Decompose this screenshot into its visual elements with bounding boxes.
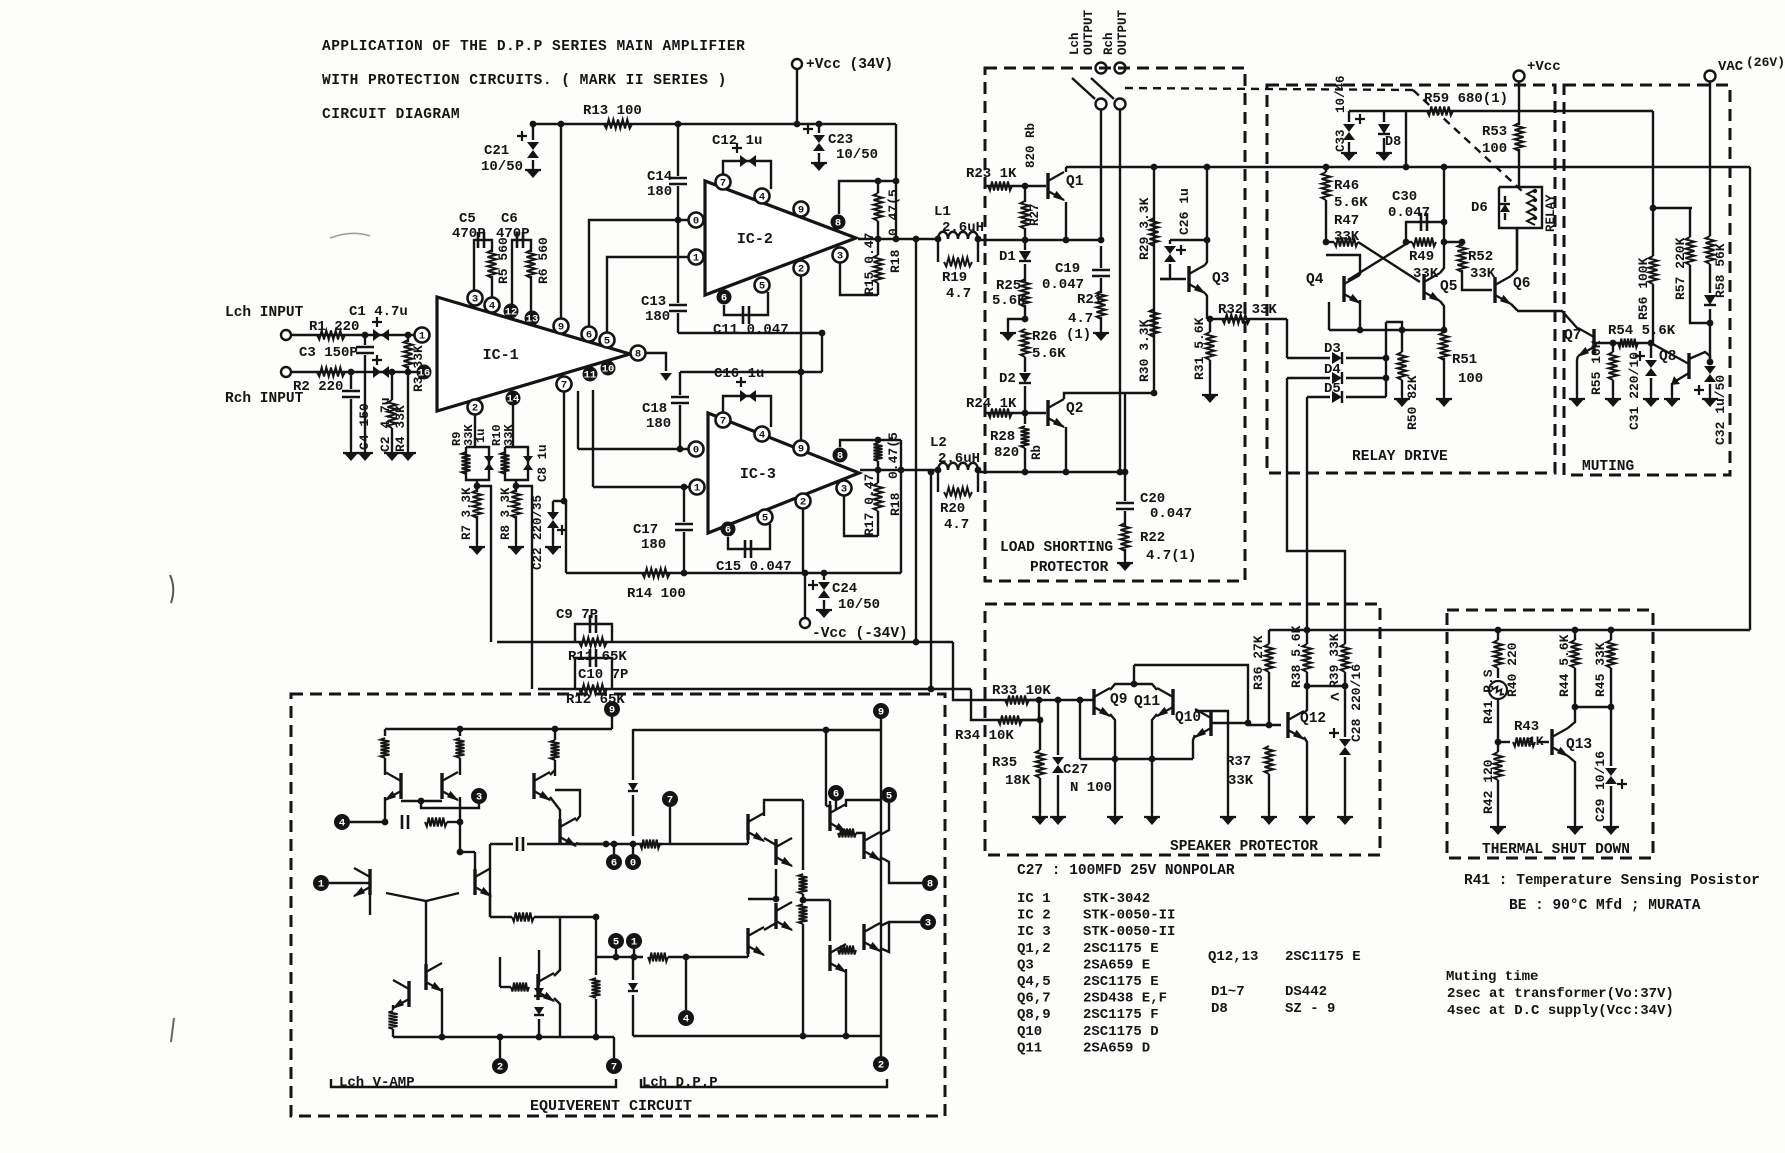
resistor R6 [527, 250, 536, 278]
right column x826 [825, 730, 827, 806]
box EQUIVERENT CIRCUIT [291, 694, 945, 1116]
resistor R18(5) upper [840, 440, 901, 447]
svg-text:R39 33K: R39 33K [1327, 633, 1342, 688]
svg-text:2SD438 E,F: 2SD438 E,F [1083, 991, 1167, 1007]
svg-text:5: 5 [613, 937, 619, 949]
svg-text:(26V): (26V) [1746, 55, 1785, 70]
wire R18 box bottom link [900, 440, 902, 470]
wire IC-2 output [858, 238, 938, 240]
wire main rail y167 [1154, 166, 1750, 168]
RC network R9/C7 [466, 447, 489, 480]
wire pin2 down IC-2 [800, 276, 802, 440]
capacitor C11 [724, 292, 768, 315]
wire pin1 to T3 [329, 882, 370, 884]
transistor equiv T14 [774, 903, 777, 929]
transistor equiv T10 [746, 814, 749, 840]
capacitor C30 [1406, 222, 1444, 242]
pin 4 IC-3 [755, 427, 770, 442]
resistor R24 [988, 409, 1012, 418]
wire D4 down to R39 [1287, 378, 1345, 604]
svg-text:R38 5.6K: R38 5.6K [1289, 625, 1304, 688]
svg-text:R47: R47 [1334, 213, 1359, 229]
resistor R52 [1461, 242, 1463, 246]
wire Q9 emitter [1110, 714, 1115, 759]
svg-text:R56 100K: R56 100K [1636, 257, 1651, 320]
wire Q1 collector up [1065, 167, 1067, 172]
diode D3 [1287, 357, 1330, 359]
inductor L2 [938, 463, 978, 470]
transistor Q9 [1092, 689, 1095, 715]
svg-text:BE : 90°C Mfd ; MURATA: BE : 90°C Mfd ; MURATA [1509, 898, 1701, 914]
wire bus drop1 [1114, 759, 1116, 814]
svg-text:4sec at D.C supply(Vcc:34V): 4sec at D.C supply(Vcc:34V) [1447, 1003, 1674, 1019]
pin 3 IC-2 [833, 248, 848, 263]
switch arm Lch [1072, 78, 1095, 99]
svg-text:2: 2 [800, 497, 806, 509]
wire R32 to D3 [1286, 319, 1288, 358]
svg-text:R2 220: R2 220 [293, 379, 343, 395]
pin 5 equiv [608, 933, 624, 949]
pin 4 equiv [334, 814, 350, 830]
svg-text:C33: C33 [1334, 129, 1348, 152]
capacitor C21 [532, 124, 534, 140]
wire right rail links [846, 800, 881, 807]
pin 1 equiv [313, 875, 329, 891]
svg-text:7: 7 [561, 380, 567, 392]
op-amp IC-2 [705, 181, 856, 295]
svg-text:4.7: 4.7 [944, 517, 969, 533]
pin 14 IC-1 [506, 391, 521, 406]
pin 1 IC-2 [689, 250, 704, 265]
svg-text:Rch INPUT: Rch INPUT [225, 391, 304, 407]
resistor R57 [1689, 208, 1691, 237]
wire T10 base up [747, 814, 749, 844]
svg-text:33K: 33K [1470, 266, 1496, 282]
diode equiv D-a [632, 729, 634, 780]
wire pin7 to right half [670, 843, 748, 845]
svg-text:C11 0.047: C11 0.047 [713, 322, 789, 338]
wire Q5 collector [1440, 242, 1444, 273]
Rch output terminal upper [1115, 63, 1126, 74]
wire Q9/Q11 collectors [1110, 684, 1157, 690]
pin 6 IC-1 [582, 327, 597, 342]
wire riser x532b [516, 486, 532, 689]
svg-text:C30: C30 [1392, 189, 1417, 205]
capacitor C15 [728, 524, 770, 549]
resistor equiv R-e [389, 1011, 398, 1029]
diode D5 [1307, 396, 1330, 398]
pin 8 equiv [922, 875, 938, 891]
resistor R40 [1497, 630, 1499, 640]
transistor equiv T2 [440, 773, 443, 799]
svg-text:R31 5.6K: R31 5.6K [1192, 317, 1207, 380]
wire to R33 [953, 642, 1039, 700]
wire pin2 IC-3 down [802, 509, 804, 573]
svg-text:3: 3 [472, 294, 478, 306]
wire T7 c/e [550, 770, 555, 775]
wire Q10 emitter [1193, 735, 1195, 759]
op-amp IC-1 [437, 297, 630, 411]
box MUTING [1564, 85, 1730, 475]
transistor equiv T5 [424, 964, 427, 990]
wire R32 line [1207, 318, 1287, 320]
wire pin14 down [512, 405, 514, 447]
resistor R28 [1024, 413, 1026, 424]
pin 0 IC-2 [689, 213, 704, 228]
transistor Q3 [1187, 266, 1190, 292]
pin 3 equiv [471, 788, 487, 804]
svg-text:Q11: Q11 [1017, 1040, 1042, 1056]
resistor R51 [1440, 332, 1449, 360]
op-amp IC-3 [708, 413, 859, 533]
svg-text:5: 5 [759, 281, 765, 293]
pin 5 IC-3 [758, 510, 773, 525]
svg-text:18K: 18K [1005, 773, 1031, 789]
capacitor C4 [350, 372, 352, 389]
resistor equiv R-g [512, 913, 534, 922]
pin 5b equiv [881, 787, 897, 803]
wire R10 to R8 [515, 480, 517, 492]
svg-text:APPLICATION OF THE D.P.P S: APPLICATION OF THE D.P.P SERIES MAIN AMP… [322, 39, 745, 55]
svg-text:R30 3.3K: R30 3.3K [1137, 319, 1152, 382]
resistor R11 [579, 638, 607, 647]
wire Vcc to R53 [1518, 82, 1520, 125]
wire T9 collector [554, 917, 560, 976]
svg-text:7: 7 [611, 1062, 617, 1074]
pin 4 IC-2 [755, 189, 770, 204]
wire pin0 stem [632, 844, 634, 854]
svg-text:5: 5 [762, 513, 768, 525]
pin 7 IC-2 [716, 175, 731, 190]
svg-text:Q7: Q7 [1564, 328, 1581, 344]
pin 9 equiv right [873, 703, 889, 719]
wire feedback IC-2 out [915, 239, 917, 642]
wire Q6 collector [1511, 228, 1517, 276]
svg-text:5.6K: 5.6K [1032, 346, 1066, 362]
resistor R3 [407, 335, 409, 342]
svg-text:C16 1u: C16 1u [714, 366, 764, 382]
svg-text:2SA659 D: 2SA659 D [1083, 1040, 1150, 1056]
resistor equiv R-i [648, 953, 668, 962]
svg-text:R18: R18 [888, 249, 903, 273]
resistor R30 [1150, 309, 1159, 337]
svg-text:MUTING: MUTING [1582, 459, 1634, 475]
wire T1/T2 emitters [384, 772, 386, 775]
pin 0 equiv [625, 854, 641, 870]
wire IC-3 output [860, 469, 938, 471]
pin 4 IC-1 [485, 298, 500, 313]
svg-text:VAC: VAC [1718, 59, 1744, 75]
wire equiv right top rail [633, 729, 881, 731]
pin 5 IC-1 [600, 333, 615, 348]
svg-text:R22: R22 [1140, 530, 1165, 546]
zener D8 [1383, 111, 1385, 122]
svg-text:14: 14 [507, 394, 520, 406]
svg-text:4.7: 4.7 [1068, 311, 1093, 327]
wire T15 base [747, 954, 749, 957]
transistor equiv T4 [473, 869, 476, 895]
wire Q3 emitter [1205, 293, 1207, 319]
svg-text:D5: D5 [1324, 381, 1341, 397]
resistor R38 [1306, 630, 1308, 644]
resistor R37 [1265, 746, 1274, 774]
svg-text:0.047: 0.047 [1042, 277, 1084, 293]
wire -Vcc terminal [804, 573, 806, 618]
capacitor C31 [1650, 343, 1652, 358]
svg-text:SPEAKER PROTECTOR: SPEAKER PROTECTOR [1170, 839, 1318, 855]
svg-text:180: 180 [647, 184, 672, 200]
wire +Vcc right terminal [1514, 71, 1525, 82]
svg-text:C5: C5 [459, 211, 476, 227]
wire T13b emitter [880, 922, 920, 952]
transistor equiv T6 [407, 981, 410, 1007]
wire y167 rail to C26 [1206, 167, 1208, 240]
svg-text:Q6,7: Q6,7 [1017, 991, 1051, 1007]
wire C22 to R14 line [553, 501, 566, 573]
wire R38-R39 bar [1307, 685, 1345, 687]
wire bus drop2 [1151, 759, 1153, 814]
transistor equiv T12b [862, 833, 865, 859]
wire T10-T11 [764, 838, 776, 845]
svg-text:Q4,5: Q4,5 [1017, 974, 1051, 990]
svg-text:2.6uH: 2.6uH [942, 220, 984, 236]
wire pin9R stem [880, 719, 882, 730]
transistor Q5 [1422, 274, 1425, 300]
mid resistors equiv [802, 800, 804, 870]
wire relay to Q6 [1516, 228, 1518, 265]
svg-text:R28: R28 [990, 429, 1015, 445]
svg-text:IC-2: IC-2 [737, 231, 773, 248]
svg-text:RELAY: RELAY [1544, 194, 1558, 232]
svg-text:0.047: 0.047 [1150, 506, 1192, 522]
wire Q11 emitter [1152, 714, 1157, 759]
svg-text:33K: 33K [1413, 266, 1439, 282]
transistor Q13 [1550, 729, 1553, 755]
svg-text:Lch: Lch [1068, 32, 1082, 55]
svg-text:Q4: Q4 [1306, 272, 1324, 288]
svg-text:C9 7P: C9 7P [556, 607, 598, 623]
wire Vcc rail down right [895, 124, 897, 239]
svg-text:+Vcc: +Vcc [1527, 59, 1561, 75]
inductor L1 [938, 232, 978, 239]
svg-text:2: 2 [878, 1060, 884, 1072]
svg-text:Q2: Q2 [1066, 401, 1083, 417]
svg-text:C32 1u/50: C32 1u/50 [1713, 375, 1728, 445]
svg-text:R54 5.6K: R54 5.6K [1608, 323, 1676, 339]
svg-text:Lch V-AMP: Lch V-AMP [339, 1075, 415, 1091]
pin 8 IC-2 [831, 215, 846, 230]
svg-text:CIRCUIT DIAGRAM: CIRCUIT DIAGRAM [322, 107, 460, 123]
svg-text:R27: R27 [1028, 203, 1042, 226]
wire C33/D8 bar [1349, 110, 1406, 112]
wire T15-T14 [764, 923, 776, 930]
capacitor C29 [1610, 707, 1612, 766]
wire Q8 emitter gnd [1671, 383, 1673, 396]
pin 9 IC-2 [794, 202, 809, 217]
svg-text:2SC1175 F: 2SC1175 F [1083, 1007, 1159, 1023]
svg-text:D4: D4 [1324, 362, 1341, 378]
capacitor C23 [818, 124, 820, 133]
wire T12 base vert [775, 869, 777, 899]
svg-text:IC-3: IC-3 [740, 466, 776, 483]
transistor equiv T13a [828, 945, 831, 971]
wire R44-R45 bar [1575, 706, 1611, 708]
svg-text:Q6: Q6 [1513, 276, 1530, 292]
svg-text:R25: R25 [996, 278, 1021, 294]
transistor equiv T3 [368, 869, 371, 895]
svg-text:C29: C29 [1593, 798, 1608, 822]
pin 6 IC-3 [721, 522, 736, 537]
wire -Vcc rail [566, 572, 901, 574]
wire pin2b stem [880, 1036, 882, 1056]
wire equiv bottom rail right [633, 1035, 881, 1037]
svg-text:100: 100 [1482, 141, 1507, 157]
Lch output terminal upper [1096, 63, 1107, 74]
wire Q10 base [1211, 722, 1248, 724]
resistor R13 [604, 120, 632, 129]
wire C3 lower stub [364, 372, 366, 450]
pin 8 IC-3 [833, 448, 848, 463]
wire base tie to pin3 [421, 801, 479, 808]
svg-text:R5 560: R5 560 [496, 237, 511, 284]
pin 10 IC-1 [601, 361, 616, 376]
capacitor C26 [1170, 239, 1207, 241]
svg-text:R26: R26 [1032, 329, 1057, 345]
box LOAD SHORTING PROTECTOR [985, 68, 1245, 581]
svg-text:R34 10K: R34 10K [955, 728, 1014, 744]
wire pin0 left riser [577, 391, 579, 449]
svg-text:3: 3 [841, 484, 847, 496]
wire pin1 left riser [592, 390, 594, 487]
svg-text:2: 2 [497, 1062, 503, 1074]
svg-text:R1 220: R1 220 [309, 319, 359, 335]
resistor R46 [1325, 167, 1327, 172]
switch arm Rch [1091, 78, 1114, 99]
svg-text:C17: C17 [633, 522, 658, 538]
svg-text:R41 P.S: R41 P.S [1481, 669, 1496, 724]
capacitor C1 [373, 329, 389, 341]
pin 3 IC-1 [468, 291, 483, 306]
resistor R56 [1652, 208, 1654, 256]
svg-text:16: 16 [418, 368, 431, 380]
svg-text:C26 1u: C26 1u [1177, 188, 1192, 235]
svg-text:R53: R53 [1482, 124, 1507, 140]
capacitor C6 loop [512, 240, 531, 304]
resistor R26 [1021, 329, 1030, 357]
svg-text:0.47(5: 0.47(5 [886, 189, 901, 236]
pin 11 IC-1 [583, 367, 598, 382]
svg-text:4.7(1): 4.7(1) [1146, 548, 1196, 564]
svg-text:N 100: N 100 [1070, 780, 1112, 796]
diode equiv D-b [632, 957, 634, 980]
svg-text:D3: D3 [1324, 341, 1341, 357]
wire Q4 emitter drop [1328, 302, 1330, 330]
svg-text:7: 7 [720, 178, 726, 190]
svg-text:R36 27K: R36 27K [1251, 635, 1266, 690]
resistor R1 [317, 331, 345, 340]
svg-text:3: 3 [476, 792, 482, 804]
svg-text:R35: R35 [992, 755, 1017, 771]
transistor Q4 [1342, 276, 1345, 302]
capacitor C13 [669, 305, 687, 311]
wire Q3 base [1160, 278, 1186, 280]
svg-text:0: 0 [693, 216, 699, 228]
svg-text:LOAD SHORTING: LOAD SHORTING [1000, 540, 1113, 556]
wire Q5 base cross [1348, 244, 1406, 280]
svg-text:WITH PROTECTION CIRCUITS. (: WITH PROTECTION CIRCUITS. ( MARK II SERI… [322, 73, 727, 89]
svg-text:IC-1: IC-1 [483, 347, 519, 364]
transistor equiv T9 [536, 974, 539, 1000]
svg-text:9: 9 [878, 707, 884, 719]
resistor R15 [877, 239, 879, 255]
resistor R31 [1209, 319, 1211, 332]
capacitor C22 [552, 501, 554, 512]
wire T8 links [555, 790, 580, 821]
pin 0 IC-3 [689, 442, 704, 457]
wire Q13 collector [1568, 707, 1575, 728]
wire T1-T2 base tie [401, 800, 442, 802]
resistor R44 [1574, 630, 1576, 640]
svg-text:0: 0 [630, 858, 636, 870]
pin 5 IC-2 [755, 278, 770, 293]
transistor Q12 [1286, 712, 1289, 738]
wire T4 collector [489, 893, 491, 917]
capacitor C20 [1116, 503, 1134, 509]
svg-text:2.6uH: 2.6uH [938, 451, 980, 467]
svg-text:OUTPUT: OUTPUT [1116, 9, 1130, 55]
wire Q2 emitter down [1065, 427, 1067, 472]
svg-text:180: 180 [645, 309, 670, 325]
svg-text:5: 5 [886, 791, 892, 803]
wire pin0 line to C13 [677, 220, 679, 303]
svg-text:100: 100 [1458, 371, 1483, 387]
capacitor C5 loop [474, 240, 492, 291]
transistor Q2 [1046, 400, 1049, 426]
svg-text:R46: R46 [1334, 178, 1359, 194]
wire feedback IC-3 out [930, 472, 932, 689]
RC network R10/C8 [505, 447, 528, 480]
resistor R33 [1005, 696, 1029, 705]
wire pin2 down [474, 414, 476, 447]
wire pin5/1 node [596, 956, 643, 958]
svg-text:7: 7 [667, 795, 673, 807]
svg-text:33K: 33K [502, 424, 516, 446]
resistor R54 [1618, 339, 1638, 348]
svg-text:R59 680(1): R59 680(1) [1424, 91, 1508, 107]
svg-text:PROTECTOR: PROTECTOR [1030, 560, 1109, 576]
resistor R21 [1097, 291, 1106, 319]
wire main rail y630 [1269, 629, 1750, 631]
wire rail right end down [1749, 167, 1751, 630]
VAC terminal [1705, 71, 1716, 82]
svg-text:R58 56K: R58 56K [1713, 243, 1728, 298]
wire R59 down to muting [1652, 111, 1654, 208]
wire collector node up [1133, 665, 1135, 684]
svg-text:R57 220K: R57 220K [1673, 237, 1688, 300]
bracket Lch D.P.P [641, 1079, 887, 1087]
pin 7b equiv [606, 1058, 622, 1074]
svg-text:10/16: 10/16 [1593, 751, 1608, 790]
wire Q2 collector up [1064, 393, 1125, 399]
svg-text:R41 : Temperature Sensing Posi: R41 : Temperature Sensing Posistor [1464, 873, 1760, 889]
pin 7 equiv [662, 791, 678, 807]
svg-text:OUTPUT: OUTPUT [1082, 9, 1096, 55]
svg-text:Q3: Q3 [1212, 271, 1229, 287]
wire down to C20 [1124, 393, 1126, 501]
transistor equiv T11 [774, 839, 777, 865]
svg-text:820 Rb: 820 Rb [1024, 123, 1038, 168]
svg-text:0: 0 [693, 445, 699, 457]
